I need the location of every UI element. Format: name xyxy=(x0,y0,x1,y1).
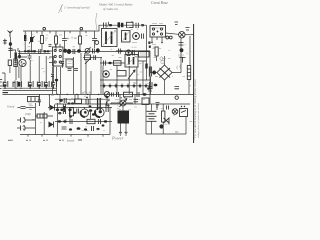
wire B+ rail partial xyxy=(55,98,110,100)
capacitor bars C40 xyxy=(134,99,139,102)
tube V6 xyxy=(103,71,110,78)
ground mark left xyxy=(3,39,7,45)
IF transformer T3 xyxy=(125,55,138,68)
resistor R8 xyxy=(87,119,95,123)
bead FB16 xyxy=(77,127,81,130)
wire top rail xyxy=(23,25,147,31)
bead FB12 xyxy=(89,109,93,112)
bead FB6 xyxy=(43,50,46,52)
capacitor C32 xyxy=(119,49,123,54)
bead FB1 xyxy=(109,22,113,27)
bead FB23 xyxy=(92,113,95,115)
chassis dash xyxy=(3,92,9,94)
wire lower rail xyxy=(55,103,190,105)
bead FB21 xyxy=(58,112,61,114)
lamp symbol above transformer xyxy=(111,97,133,107)
resistor R16 xyxy=(155,47,158,61)
handwritten note top right xyxy=(151,1,168,5)
diode D3 xyxy=(159,118,169,129)
wire mid verticals xyxy=(103,61,143,94)
bead FB8 xyxy=(96,48,100,52)
capacitor C12 xyxy=(28,54,32,60)
wire board pins down xyxy=(151,37,163,43)
bead FB30 xyxy=(47,50,50,52)
bead FB14 xyxy=(63,120,66,122)
switch box S1 xyxy=(180,106,188,117)
tube V3 top view xyxy=(19,59,26,66)
svg-text:vintage photo of chassis and c: vintage photo of chassis and cabinet xyxy=(197,103,200,138)
tube V5 xyxy=(95,107,104,117)
handwritten note: overhead aerial xyxy=(59,4,90,13)
trimmer capacitor C1 xyxy=(8,42,12,50)
svg-text:1' overhead aerial: 1' overhead aerial xyxy=(64,6,90,10)
capacitor C4 xyxy=(92,31,99,48)
coupling cap C21 xyxy=(63,104,65,114)
resistor R12 xyxy=(117,71,126,77)
bead FB15 xyxy=(104,120,107,122)
capacitor C24 xyxy=(62,127,67,129)
capacitor C30 xyxy=(137,92,139,97)
wire tie upper xyxy=(10,57,27,78)
capacitor C9 xyxy=(93,49,95,54)
diode D5 xyxy=(49,122,54,128)
socket box X1 xyxy=(139,52,150,58)
svg-text:1 pF + Ar: 1 pF + Ar xyxy=(80,92,92,95)
capacitor C6 xyxy=(136,23,138,28)
svg-text:Toroid: Toroid xyxy=(7,106,15,109)
resistor R3 xyxy=(74,31,82,51)
coil L3 xyxy=(122,31,131,43)
bead FB4 xyxy=(27,50,30,52)
capacitor C22 xyxy=(70,119,72,124)
rotated margin note xyxy=(194,79,200,140)
bead FB26 xyxy=(96,128,99,130)
IF transformer T1 xyxy=(102,29,118,47)
bead FB19 xyxy=(154,84,158,87)
filter capacitor C18 xyxy=(52,81,57,89)
wire bottom rail left xyxy=(20,135,110,137)
trimmer C2 xyxy=(29,31,35,51)
bead FB18 xyxy=(108,62,111,64)
wire jack feeds xyxy=(150,51,181,95)
bead FB31 xyxy=(69,115,72,117)
filter capacitor C17 xyxy=(44,81,49,89)
grommet pair xyxy=(152,36,172,47)
terminal board TB1 xyxy=(150,26,166,38)
filter capacitor C13 xyxy=(3,81,8,89)
bead FB7 xyxy=(77,49,81,53)
bead FB17 xyxy=(143,93,147,96)
resistor R11 xyxy=(114,61,122,66)
wire stub columns audio xyxy=(58,103,111,135)
leader line to circuit xyxy=(96,13,97,30)
wire col x101 xyxy=(100,57,102,94)
bead pair top xyxy=(68,102,75,104)
capacitor C23 xyxy=(99,119,101,124)
tube V1 top view xyxy=(132,33,144,43)
electrolytic C28 xyxy=(17,126,35,131)
filter capacitor C16 xyxy=(37,81,42,89)
coil arc L7 xyxy=(106,96,110,106)
diode D1 xyxy=(50,105,55,111)
choke L6 xyxy=(14,59,18,67)
trimmer arrow 2 xyxy=(128,70,135,79)
bead FB22 xyxy=(73,112,76,114)
wire row y63 xyxy=(100,61,147,63)
wire socket drops xyxy=(53,67,61,94)
rail ticks xyxy=(37,31,86,33)
capacitor C5 xyxy=(104,23,107,28)
wire bus lower xyxy=(3,89,57,91)
pilot lamp P2 xyxy=(172,109,178,115)
bead FB33 xyxy=(102,124,105,126)
coupling coil L5 xyxy=(67,49,71,54)
capacitor C20 xyxy=(38,94,41,106)
antenna A1 xyxy=(8,31,13,38)
resistor R14 xyxy=(162,104,165,134)
wire detector row xyxy=(83,56,102,58)
wire col x49.6 xyxy=(49,94,51,107)
wire row y80 xyxy=(100,79,150,81)
capacitor C39 xyxy=(51,75,54,77)
svg-text:Power: Power xyxy=(111,136,124,141)
tube V7 top view xyxy=(126,50,135,56)
capacitor C35 xyxy=(86,97,88,105)
label marks above board xyxy=(152,24,163,26)
rail circle marks xyxy=(43,27,83,30)
transformer leads xyxy=(119,124,128,136)
resistor R2 xyxy=(55,31,58,51)
coil L1 xyxy=(10,50,17,63)
grid box U1 xyxy=(66,59,73,67)
bead FB10 xyxy=(60,109,63,112)
wire col x81 xyxy=(80,53,82,94)
resistor R7 xyxy=(70,108,74,116)
wire bottom right frame xyxy=(146,104,186,134)
svg-text:fused: fused xyxy=(67,139,74,143)
value note xyxy=(80,92,92,95)
capacitor C33 xyxy=(149,67,156,95)
filter capacitor C15 xyxy=(28,81,33,89)
wire ground bus xyxy=(3,88,57,89)
handwriting bottom left xyxy=(7,106,15,109)
wire mid bus xyxy=(63,51,151,53)
pilot lamp P1 xyxy=(175,22,194,38)
handwriting power label xyxy=(111,136,124,141)
wire bus right tail xyxy=(116,50,150,52)
trimmer VC2 xyxy=(85,48,91,55)
tube V4 xyxy=(81,107,89,117)
gang capacitor VC1 xyxy=(28,97,40,102)
bead FB5 xyxy=(33,50,36,52)
rectifier disc D2 xyxy=(104,92,110,98)
edge fragment marks xyxy=(0,80,2,89)
bead row xyxy=(100,84,150,89)
tuning bus pair xyxy=(18,48,51,54)
wire long ground rail xyxy=(3,94,194,95)
power transformer T2 xyxy=(118,104,130,123)
capacitor C26 xyxy=(18,104,36,109)
wire audio mid rail xyxy=(55,121,112,123)
capacitor C29 xyxy=(117,92,119,97)
bars cluster mid xyxy=(106,104,108,113)
bars cluster xyxy=(68,69,79,71)
bead FB24 xyxy=(69,128,72,130)
bottom tick marks xyxy=(8,140,82,142)
battery B1 xyxy=(147,104,157,134)
resistor R4 xyxy=(118,22,124,27)
capacitor C8 xyxy=(73,49,75,54)
resistor R9 xyxy=(35,114,53,118)
bead FB25 xyxy=(84,128,87,130)
right border fold line xyxy=(193,24,195,143)
capacitor C10 xyxy=(94,55,96,60)
terminal block small xyxy=(8,60,11,66)
wire rail links xyxy=(60,94,150,104)
wire lamp down xyxy=(178,36,190,66)
filter capacitor C14 dual xyxy=(13,81,22,88)
wire board to lamp xyxy=(166,33,179,34)
capacitor C34 xyxy=(162,58,186,63)
coil can L4 xyxy=(18,50,21,59)
bead FB28 xyxy=(24,50,27,52)
bead FB9 xyxy=(56,109,59,112)
resistor R5 xyxy=(127,21,134,28)
bead FB27 xyxy=(55,79,58,82)
wire audio top rail xyxy=(48,106,112,108)
tube socket V2 xyxy=(49,44,67,66)
handwriting (or) xyxy=(25,113,31,116)
pin blob column xyxy=(148,42,151,48)
rail cluster marks xyxy=(112,93,146,100)
handwriting fuse label xyxy=(67,139,74,143)
resistor R6 xyxy=(85,55,92,64)
capacitor C31 xyxy=(104,61,106,66)
svg-text:Great Rose: Great Rose xyxy=(151,1,168,5)
wire antenna down xyxy=(9,37,11,58)
relay box K1 xyxy=(142,98,149,105)
wire junction column xyxy=(35,103,44,135)
handwritten title xyxy=(98,3,133,11)
terminal ring xyxy=(147,87,179,100)
bead FB29 xyxy=(30,50,33,52)
coupling cap C36 xyxy=(98,98,101,110)
resistor R1 xyxy=(41,31,49,51)
bead FB20 xyxy=(59,98,66,103)
capacitor C38 xyxy=(167,106,169,110)
output jack J1 xyxy=(150,56,181,94)
bead FB13 xyxy=(58,120,61,122)
capacitor C3 xyxy=(59,31,67,51)
coil L2 xyxy=(24,31,26,51)
label 60 cy xyxy=(175,131,180,134)
svg-text:(OR): (OR) xyxy=(25,113,31,116)
wire aux column xyxy=(156,103,160,111)
capacitor C7 xyxy=(39,49,41,54)
electrolytic C27 xyxy=(17,118,35,123)
wire right drop xyxy=(145,25,147,80)
capacitor C11 xyxy=(61,62,65,69)
resistor R13 xyxy=(187,66,190,95)
bead FB3 xyxy=(141,24,144,26)
resistor R15 xyxy=(75,94,82,103)
capacitor C37 xyxy=(77,109,79,114)
bead FB32 xyxy=(89,105,92,107)
handwriting scribble on rail xyxy=(49,95,55,96)
svg-text:60~: 60~ xyxy=(175,131,180,134)
svg-text:of radio era: of radio era xyxy=(103,7,118,11)
bead FB11 xyxy=(68,109,71,112)
wire col comb xyxy=(74,57,92,94)
wire feeders xyxy=(2,56,54,81)
resistor R10 xyxy=(124,92,133,97)
capacitor C25 xyxy=(92,126,94,131)
